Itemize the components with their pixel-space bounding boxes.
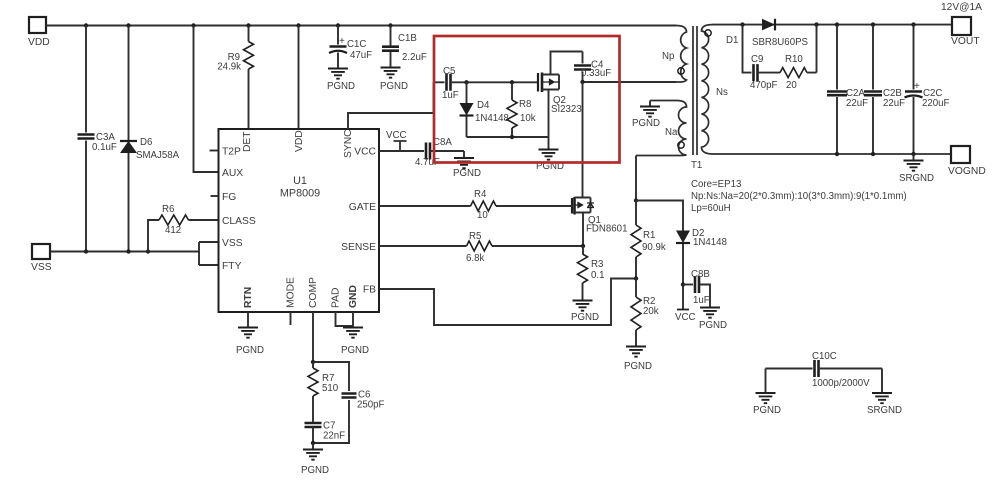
svg-text:1uF: 1uF bbox=[693, 295, 710, 306]
wire PAD GND join bbox=[336, 312, 354, 327]
svg-text:DET: DET bbox=[242, 131, 253, 152]
svg-text:47uF: 47uF bbox=[350, 50, 372, 61]
svg-text:MODE: MODE bbox=[286, 277, 297, 308]
svg-text:+: + bbox=[339, 36, 345, 47]
transformer T1 aux winding Na bbox=[636, 101, 687, 156]
diode D1 SBR8U60PS bbox=[726, 19, 809, 48]
svg-text:RTN: RTN bbox=[243, 287, 254, 308]
transformer T1 primary Np bbox=[662, 26, 687, 83]
capacitor C1C bbox=[329, 26, 372, 69]
svg-text:1000p/2000V: 1000p/2000V bbox=[812, 378, 870, 389]
wire secondary top rail bbox=[712, 24, 952, 26]
resistor R3 bbox=[578, 246, 605, 300]
svg-text:PGND: PGND bbox=[571, 312, 599, 323]
svg-text:VCC: VCC bbox=[386, 130, 406, 141]
svg-text:6.8k: 6.8k bbox=[466, 253, 484, 264]
svg-text:Lp=60uH: Lp=60uH bbox=[691, 203, 731, 214]
svg-text:SRGND: SRGND bbox=[899, 173, 934, 184]
ground PGND at C8B bbox=[699, 308, 727, 332]
svg-text:PAD: PAD bbox=[331, 288, 342, 308]
ground PGND clamp bbox=[536, 137, 564, 172]
svg-text:Ns: Ns bbox=[716, 87, 728, 98]
svg-text:Na: Na bbox=[665, 127, 678, 138]
svg-text:FTY: FTY bbox=[222, 261, 242, 272]
svg-text:1N4148: 1N4148 bbox=[475, 113, 509, 124]
ground PGND at Na bbox=[632, 101, 660, 130]
ground PGND at GND pin bbox=[341, 328, 369, 357]
diode D2 1N4148 bbox=[636, 201, 727, 310]
svg-text:C8B: C8B bbox=[691, 269, 710, 280]
svg-text:R8: R8 bbox=[519, 99, 531, 110]
svg-text:T1: T1 bbox=[691, 160, 702, 171]
svg-text:PGND: PGND bbox=[327, 81, 355, 92]
resistor R1 bbox=[631, 201, 666, 279]
capacitor C5 bbox=[434, 66, 537, 101]
svg-text:12V@1A: 12V@1A bbox=[941, 2, 982, 13]
ground PGND of C1C bbox=[327, 69, 355, 93]
wire VCC pin bbox=[379, 150, 424, 152]
svg-text:10: 10 bbox=[477, 210, 488, 221]
pin stub FG bbox=[211, 195, 219, 197]
capacitor C7 bbox=[305, 421, 346, 444]
svg-text:0.1: 0.1 bbox=[591, 270, 604, 281]
ground PGND at C8A bbox=[453, 151, 481, 179]
capacitor C8B bbox=[683, 269, 710, 307]
ground PGND at R2 bbox=[624, 347, 652, 373]
svg-text:SMAJ58A: SMAJ58A bbox=[136, 150, 180, 161]
wire clamp bottom rail bbox=[467, 136, 549, 138]
resistor R5 bbox=[379, 231, 583, 264]
svg-text:412: 412 bbox=[165, 225, 181, 236]
svg-text:PGND: PGND bbox=[753, 405, 781, 416]
svg-text:Core=EP13: Core=EP13 bbox=[691, 179, 741, 190]
resistor R8 bbox=[507, 82, 536, 137]
resistor R10 bbox=[780, 25, 817, 91]
svg-text:C10C: C10C bbox=[812, 351, 837, 362]
svg-text:VOUT: VOUT bbox=[951, 36, 980, 47]
svg-text:GATE: GATE bbox=[349, 202, 376, 213]
IC U1 MP8009 bbox=[219, 129, 380, 312]
resistor R4 bbox=[379, 189, 572, 221]
wire COMP bbox=[312, 312, 314, 362]
transistor Q1 FDN8601 bbox=[572, 197, 627, 246]
wire AUX bbox=[194, 26, 219, 173]
svg-text:510: 510 bbox=[322, 383, 339, 394]
svg-text:PGND: PGND bbox=[341, 345, 369, 356]
capacitor C10C bbox=[766, 351, 883, 389]
svg-text:GND: GND bbox=[348, 285, 359, 308]
diode D4 1N4148 bbox=[460, 82, 509, 137]
pin stub T2P bbox=[210, 150, 219, 152]
svg-text:FG: FG bbox=[222, 192, 236, 203]
svg-text:22uF: 22uF bbox=[883, 98, 905, 109]
resistor R6 bbox=[148, 204, 219, 252]
wire Na to divider bbox=[635, 156, 637, 201]
svg-text:2.2uF: 2.2uF bbox=[402, 52, 427, 63]
svg-text:C1B: C1B bbox=[398, 33, 417, 44]
svg-text:D1: D1 bbox=[726, 35, 738, 46]
wire VSS rail bbox=[50, 251, 199, 253]
wire secondary bottom rail bbox=[835, 152, 839, 156]
wire FB feedback bbox=[379, 279, 636, 326]
svg-text:CLASS: CLASS bbox=[222, 216, 256, 227]
svg-text:FB: FB bbox=[363, 285, 376, 296]
terminal VOUT bbox=[941, 2, 982, 47]
svg-text:D4: D4 bbox=[477, 100, 490, 111]
svg-text:1N4148: 1N4148 bbox=[693, 237, 727, 248]
capacitor C6 bbox=[313, 362, 385, 443]
svg-text:0.1uF: 0.1uF bbox=[92, 142, 117, 153]
capacitor C2A bbox=[827, 25, 868, 154]
svg-text:R3: R3 bbox=[591, 259, 603, 270]
capacitor C3A bbox=[78, 26, 117, 252]
svg-text:0.33uF: 0.33uF bbox=[581, 68, 611, 79]
svg-text:PGND: PGND bbox=[624, 361, 652, 372]
svg-text:MP8009: MP8009 bbox=[280, 188, 320, 200]
svg-text:VOGND: VOGND bbox=[948, 166, 986, 177]
red highlight box bbox=[434, 36, 620, 163]
svg-text:VSS: VSS bbox=[222, 238, 243, 249]
svg-text:24.9k: 24.9k bbox=[217, 62, 241, 73]
wire SYNC to clamp bbox=[348, 82, 434, 129]
svg-text:FDN8601: FDN8601 bbox=[586, 224, 627, 235]
TVS diode D6 SMAJ58A bbox=[120, 26, 180, 252]
svg-text:C9: C9 bbox=[751, 54, 763, 65]
ground PGND at C10C bbox=[753, 369, 781, 417]
transistor Q2 SI2323 bbox=[537, 52, 583, 138]
svg-text:22uF: 22uF bbox=[846, 98, 868, 109]
svg-text:R1: R1 bbox=[643, 230, 655, 241]
svg-text:VCC: VCC bbox=[354, 147, 376, 158]
svg-text:1uF: 1uF bbox=[442, 90, 459, 101]
svg-text:470pF: 470pF bbox=[750, 80, 778, 91]
svg-text:+: + bbox=[914, 81, 920, 92]
ground PGND at COMP network bbox=[301, 443, 329, 476]
svg-text:SENSE: SENSE bbox=[341, 242, 376, 253]
wire VSS FTY bracket bbox=[199, 242, 219, 265]
wire VDD pin bbox=[298, 26, 300, 130]
transformer T1 labels bbox=[691, 160, 907, 214]
terminal VOGND bbox=[948, 146, 986, 177]
svg-text:R5: R5 bbox=[469, 231, 481, 242]
svg-text:Np:Ns:Na=20(2*0.3mm):10(3*0.3m: Np:Ns:Na=20(2*0.3mm):10(3*0.3mm):9(1*0.1… bbox=[691, 191, 907, 202]
resistor R2 bbox=[631, 279, 659, 347]
capacitor C9 bbox=[743, 25, 781, 91]
svg-text:C1C: C1C bbox=[347, 39, 366, 50]
capacitor C4 bbox=[574, 52, 611, 83]
svg-text:R10: R10 bbox=[785, 54, 803, 65]
svg-text:PGND: PGND bbox=[632, 118, 660, 129]
svg-text:PGND: PGND bbox=[380, 81, 408, 92]
svg-text:10k: 10k bbox=[520, 113, 536, 124]
wire RTN to ground bbox=[247, 312, 249, 327]
svg-text:SRGND: SRGND bbox=[867, 405, 902, 416]
ground PGND of C1B bbox=[380, 68, 408, 93]
svg-text:220uF: 220uF bbox=[922, 98, 950, 109]
capacitor C2B bbox=[864, 25, 905, 154]
wire top VDD rail bbox=[46, 25, 676, 27]
svg-text:C8A: C8A bbox=[433, 137, 452, 148]
svg-text:90.9k: 90.9k bbox=[642, 242, 666, 253]
svg-text:D6: D6 bbox=[140, 137, 152, 148]
svg-text:250pF: 250pF bbox=[357, 400, 385, 411]
svg-text:Np: Np bbox=[662, 51, 674, 62]
svg-text:22nF: 22nF bbox=[323, 431, 345, 442]
terminal VSS bbox=[31, 244, 52, 273]
svg-text:PGND: PGND bbox=[301, 465, 329, 476]
svg-text:VSS: VSS bbox=[31, 262, 52, 273]
svg-text:VCC: VCC bbox=[675, 312, 695, 323]
pin stub MODE bbox=[290, 312, 292, 325]
ground SRGND at C10C bbox=[867, 369, 902, 417]
svg-text:AUX: AUX bbox=[222, 168, 243, 179]
svg-text:PGND: PGND bbox=[699, 320, 727, 331]
svg-text:PGND: PGND bbox=[453, 168, 481, 179]
capacitor C1B bbox=[382, 26, 427, 68]
svg-text:T2P: T2P bbox=[222, 147, 241, 158]
svg-text:COMP: COMP bbox=[308, 277, 319, 308]
resistor R9 bbox=[217, 26, 253, 130]
ground SRGND bbox=[899, 154, 934, 184]
svg-text:20: 20 bbox=[786, 80, 797, 91]
svg-text:20k: 20k bbox=[643, 306, 659, 317]
svg-text:VDD: VDD bbox=[28, 37, 50, 48]
power rail VCC bbox=[386, 130, 407, 151]
resistor R7 bbox=[308, 362, 339, 423]
power rail VCC down bbox=[675, 310, 695, 324]
svg-text:SBR8U60PS: SBR8U60PS bbox=[752, 37, 809, 48]
wire switch node bbox=[583, 81, 677, 83]
svg-text:SI2323: SI2323 bbox=[551, 104, 582, 115]
svg-text:SYNC: SYNC bbox=[343, 129, 354, 158]
svg-text:R4: R4 bbox=[474, 189, 487, 200]
svg-text:PGND: PGND bbox=[236, 345, 264, 356]
ground PGND at R3 bbox=[571, 301, 599, 324]
svg-text:C5: C5 bbox=[443, 66, 455, 77]
transformer T1 core bbox=[693, 26, 697, 155]
transformer T1 secondary Ns bbox=[702, 25, 953, 154]
svg-text:R6: R6 bbox=[162, 204, 174, 215]
ground PGND at RTN bbox=[236, 328, 264, 357]
svg-text:VDD: VDD bbox=[294, 130, 305, 152]
terminal VDD bbox=[28, 17, 50, 48]
svg-text:U1: U1 bbox=[293, 175, 307, 187]
capacitor C2C electrolytic bbox=[905, 25, 950, 154]
capacitor C8A bbox=[415, 137, 464, 168]
